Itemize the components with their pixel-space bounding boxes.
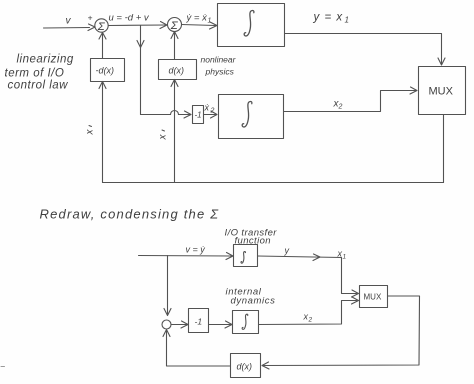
svg-text:nonlinear: nonlinear bbox=[201, 55, 237, 65]
wire bottom feedback bus bbox=[103, 182, 444, 184]
svg-text:-d(x): -d(x) bbox=[96, 66, 115, 76]
wire branch u down to -1 block bbox=[137, 26, 191, 119]
wire -1 to integrator U4 bbox=[209, 321, 233, 328]
label x middle (rotated) bbox=[158, 130, 169, 141]
integrator U3 bbox=[234, 245, 258, 267]
text linearizing term of I/O control law bbox=[5, 54, 74, 92]
label nonlinear physics bbox=[201, 55, 237, 77]
svg-text:1: 1 bbox=[345, 16, 349, 25]
svg-text:y = x: y = x bbox=[313, 12, 344, 24]
svg-text:physics: physics bbox=[205, 67, 235, 77]
block d(x) bottom bbox=[231, 354, 261, 378]
wire x feedback up into -d(x) bbox=[99, 82, 106, 183]
svg-text:control law: control law bbox=[8, 80, 69, 92]
wire v input bottom bbox=[139, 253, 234, 260]
label x2 bottom bbox=[303, 312, 313, 324]
svg-text:-1: -1 bbox=[195, 317, 203, 327]
svg-text:d(x): d(x) bbox=[237, 362, 253, 372]
summing junction S3 bbox=[162, 320, 171, 329]
summing junction S2 bbox=[168, 18, 182, 33]
svg-text:linearizing: linearizing bbox=[17, 54, 74, 66]
wire y to x1 node and into MUX bbox=[258, 254, 359, 297]
label ydot = x1dot bbox=[186, 13, 212, 25]
label x2dot bbox=[204, 103, 215, 115]
svg-text:1: 1 bbox=[343, 254, 347, 261]
svg-text:+: + bbox=[88, 13, 93, 23]
wire MUX down to bus bbox=[443, 115, 445, 183]
block -1 top bbox=[193, 106, 204, 124]
svg-text:ẋ: ẋ bbox=[204, 103, 210, 113]
svg-text:v = ẏ: v = ẏ bbox=[186, 245, 206, 255]
svg-text:dynamics: dynamics bbox=[231, 296, 276, 307]
svg-text:MUX: MUX bbox=[429, 86, 454, 98]
svg-text:y: y bbox=[284, 246, 290, 256]
label internal dynamics bbox=[226, 287, 276, 307]
wire S2 to integrator U1 bbox=[182, 22, 218, 29]
svg-text:2: 2 bbox=[308, 317, 313, 324]
integrator U2 bbox=[219, 95, 284, 139]
integrator U4 bbox=[233, 311, 259, 334]
svg-text:x: x bbox=[158, 134, 169, 141]
scan speck at left edge bbox=[1, 366, 5, 368]
wire MUX output feedback to d(x) bbox=[262, 296, 420, 369]
MUX M1 bbox=[419, 67, 466, 115]
integrator U1 bbox=[218, 4, 285, 47]
wire branch down to S3 bbox=[164, 256, 171, 316]
svg-text:x: x bbox=[85, 129, 96, 136]
wire y=x1 to MUX top bbox=[285, 34, 446, 66]
svg-text:1: 1 bbox=[208, 18, 212, 25]
MUX M2 bbox=[360, 286, 388, 308]
svg-text:2: 2 bbox=[210, 108, 215, 115]
block -1 bottom bbox=[189, 309, 209, 333]
wire S3 to -1 bbox=[171, 321, 188, 328]
wire -d(x) to S1 bbox=[99, 33, 106, 59]
svg-text:ẏ = ẋ: ẏ = ẋ bbox=[186, 13, 209, 24]
wire x2 to MUX left bbox=[284, 87, 418, 112]
label x left (rotated) bbox=[85, 126, 96, 136]
svg-text:u = -d + v: u = -d + v bbox=[109, 13, 150, 24]
block d(x) bbox=[159, 60, 197, 80]
wire v input bbox=[44, 24, 96, 31]
block -d(x) bbox=[91, 59, 125, 82]
svg-text:-1: -1 bbox=[195, 111, 202, 120]
wire d(x) to S2 bbox=[171, 32, 178, 60]
svg-text:MUX: MUX bbox=[364, 293, 382, 302]
label x1 node bbox=[337, 249, 347, 261]
label I/O transfer function bbox=[225, 228, 278, 247]
wire x up into d(x) bbox=[171, 80, 178, 183]
label y = x1 bbox=[313, 12, 349, 25]
svg-text:term of I/O: term of I/O bbox=[5, 68, 65, 80]
svg-text:Redraw, condensing the Σ: Redraw, condensing the Σ bbox=[40, 207, 220, 222]
svg-text:function: function bbox=[235, 236, 271, 247]
summing junction S1 bbox=[95, 19, 108, 33]
svg-text:Σ: Σ bbox=[97, 21, 106, 33]
svg-text:2: 2 bbox=[338, 104, 343, 111]
svg-text:d(x): d(x) bbox=[169, 66, 185, 76]
wire -1 to integrator U2 bbox=[204, 111, 218, 118]
wire S1 to S2 bbox=[109, 22, 168, 29]
wire d(x) to S3 bbox=[163, 330, 231, 367]
svg-text:Σ: Σ bbox=[170, 20, 179, 32]
label x2 bbox=[333, 99, 343, 111]
wire x2 to MUX bottom bbox=[259, 297, 359, 325]
